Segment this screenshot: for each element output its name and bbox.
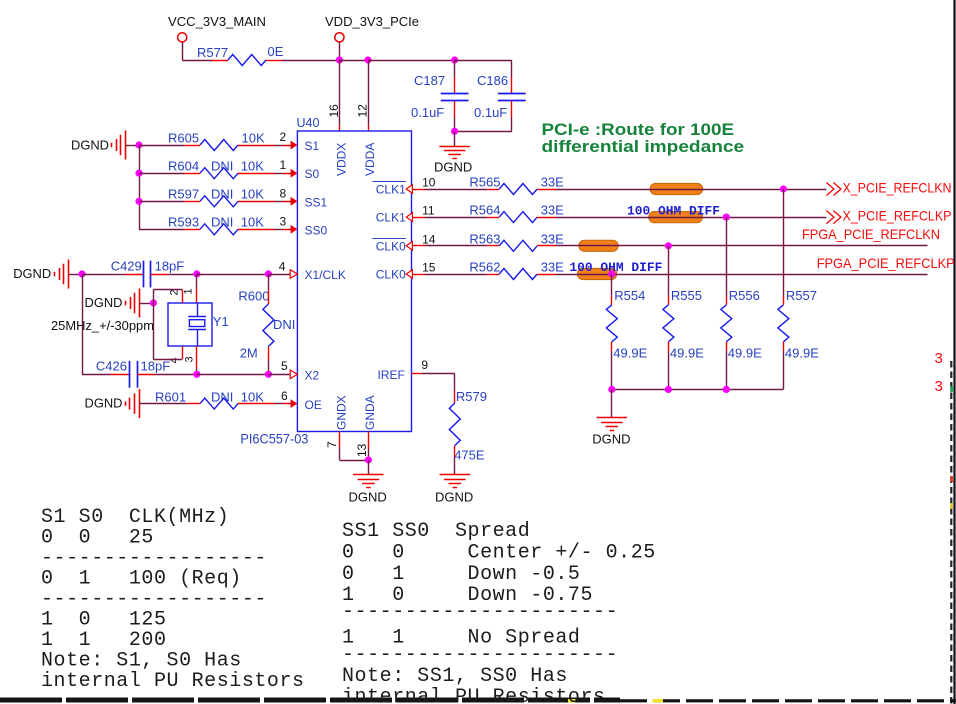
pin 14 clock output [406,232,435,250]
svg-text:R601: R601 [155,390,186,405]
svg-text:R554: R554 [614,288,645,303]
wire [139,145,141,229]
svg-text:DGND: DGND [85,295,123,310]
ground DGND (terminations) [592,389,630,446]
svg-text:R600: R600 [238,289,269,304]
svg-text:SS0: SS0 [305,223,328,237]
annotation 100 OHM DIFF [627,205,720,219]
resistor R577 0E [197,44,284,66]
wire [368,60,455,62]
svg-text:C186: C186 [477,73,508,88]
pin 1 arrow [280,158,298,177]
pin CLK1# name [373,182,407,197]
svg-text:5: 5 [281,359,288,373]
pin 7 GNDX wire [325,432,368,461]
pin S1 name [305,139,320,153]
svg-text:DGND: DGND [349,490,387,505]
pin CLK0 name [376,268,406,282]
orange highlight bar [578,268,617,279]
resistor R593 10K pin 3 [139,215,283,235]
svg-text:4: 4 [279,260,286,274]
ground DGND (pullup row) [71,131,139,160]
svg-text:DNI: DNI [211,159,233,174]
wire [197,374,269,376]
resistor R601 DNI 10K [155,390,283,410]
svg-text:16: 16 [327,104,341,118]
wire [455,131,512,133]
capacitor C187 0.1uF [411,60,469,131]
svg-text:2: 2 [280,130,287,144]
ground DGND (decoupling) [434,131,472,174]
wire [82,274,111,375]
junction [365,456,372,463]
pin 4 X1/CLK arrow [279,260,298,279]
svg-text:GNDX: GNDX [334,395,348,430]
crystal pin 3 lead [183,346,196,369]
junction [780,185,787,192]
svg-text:CLK1: CLK1 [376,183,406,197]
svg-text:VDDX: VDDX [334,143,348,176]
ground DGND (IREF) [435,475,473,505]
svg-text:CLK0: CLK0 [376,239,406,253]
svg-text:475E: 475E [454,448,485,463]
svg-text:R555: R555 [671,288,702,303]
svg-text:C429: C429 [111,259,142,274]
svg-text:FPGA_PCIE_REFCLKP: FPGA_PCIE_REFCLKP [817,255,955,271]
net label FPGA_PCIE_REFCLKN [802,226,940,242]
svg-text:SS1 SS0 Spread: SS1 SS0 Spread [342,520,530,543]
pin OE name [305,398,322,412]
table: SS1/SS0 spread spectrum select [342,520,656,704]
svg-text:CLK1: CLK1 [376,211,406,225]
svg-text:U40: U40 [297,116,320,130]
svg-text:FPGA_PCIE_REFCLKN: FPGA_PCIE_REFCLKN [802,226,940,242]
svg-text:DNI: DNI [211,390,233,405]
wire [155,374,197,376]
wire to crystal pin 4 [153,303,182,360]
resistor R564 33E [469,203,564,223]
ground DGND (GNDA) [349,460,387,505]
svg-text:0 1 Down -0.5: 0 1 Down -0.5 [342,563,581,586]
svg-text:OE: OE [305,398,322,412]
wire [182,42,212,61]
svg-text:10K: 10K [242,130,265,145]
svg-text:3: 3 [935,350,943,367]
svg-text:R564: R564 [469,203,500,218]
wire [339,60,368,62]
svg-text:13: 13 [355,443,369,457]
wire to crystal pin 2 [153,289,182,303]
junction [451,56,458,63]
crystal pin 1 label [182,288,194,294]
table: S1/S0 clock frequency select [41,506,305,693]
resistor R597 10K pin 8 [139,187,283,207]
resistor R556 49.9E termination [721,217,762,389]
svg-text:15: 15 [422,261,436,275]
svg-text:33E: 33E [541,260,564,275]
svg-text:3: 3 [183,356,195,362]
svg-text:VCC_3V3_MAIN: VCC_3V3_MAIN [168,14,266,29]
svg-text:VDDA: VDDA [363,143,377,176]
pin 8 arrow [280,186,298,205]
wire [282,60,339,62]
resistor R565 33E [469,175,564,195]
net label fragment 3 [935,350,943,367]
svg-text:100 OHM DIFF: 100 OHM DIFF [569,261,662,275]
crystal pin 4 lead [168,346,182,364]
svg-text:internal PU Resistors: internal PU Resistors [41,670,305,693]
svg-text:8: 8 [280,186,287,200]
svg-text:R605: R605 [168,130,199,145]
svg-text:12: 12 [356,104,370,118]
svg-text:0.1uF: 0.1uF [474,105,507,120]
crystal Y1 25MHz [168,303,229,346]
svg-text:49.9E: 49.9E [785,346,819,361]
net label FPGA_PCIE_REFCLKP [817,255,955,271]
junction [608,270,615,277]
svg-text:10K: 10K [241,390,264,405]
wire [82,274,111,276]
pin 16 VDDX wire [327,60,341,131]
pin X2 name [305,368,320,382]
capacitor C426 18pF [96,359,170,388]
svg-text:R563: R563 [469,231,500,246]
pin GNDA name [363,395,377,430]
wire [455,60,512,62]
net port X_PCIE_REFCLKP [826,208,951,224]
pin 5 X2 arrow [281,359,297,379]
resistor R605 10K pin 2 [139,130,283,150]
svg-text:internal PU Resistors: internal PU Resistors [342,686,606,704]
svg-text:49.9E: 49.9E [613,346,647,361]
wire [556,189,826,191]
wire [556,245,928,247]
svg-text:0E: 0E [268,44,284,59]
svg-text:C187: C187 [414,73,445,88]
junction [608,386,615,393]
svg-text:1: 1 [280,158,287,172]
resistor R604 10K pin 1 [139,159,283,179]
junction [135,198,142,205]
svg-text:DNI: DNI [211,187,233,202]
junction [193,371,200,378]
svg-text:DGND: DGND [71,138,109,153]
svg-text:25MHz_+/-30ppm: 25MHz_+/-30ppm [51,318,154,333]
svg-text:7: 7 [325,441,339,448]
wire [425,217,487,219]
wire [556,217,826,219]
svg-text:0.1uF: 0.1uF [411,105,444,120]
svg-text:9: 9 [421,358,428,372]
svg-text:X_PCIE_REFCLKN: X_PCIE_REFCLKN [843,180,952,196]
svg-text:3: 3 [935,378,943,395]
ground DGND (crystal row) [13,260,82,289]
svg-text:10: 10 [422,176,436,190]
resistor R557 49.9E termination [778,189,819,389]
svg-text:DNI: DNI [211,215,233,230]
svg-text:49.9E: 49.9E [670,346,704,361]
wire [556,274,928,276]
junction [665,242,672,249]
wire [268,274,290,276]
pin SS1 name [305,195,328,209]
wire [196,274,198,303]
svg-text:DGND: DGND [13,266,51,281]
svg-text:6: 6 [281,389,288,403]
pin 11 clock output [406,204,435,222]
svg-text:PI6C557-03: PI6C557-03 [240,431,308,447]
pin IREF name [377,368,404,382]
pin GNDX name [334,395,348,430]
wire [197,274,269,276]
junction [364,56,371,63]
junction [451,128,458,135]
svg-text:R577: R577 [197,45,228,60]
svg-text:49.9E: 49.9E [728,346,762,361]
junction [723,214,730,221]
svg-text:10K: 10K [241,215,264,230]
pin 13 GNDA wire [355,432,369,461]
pin SS0 name [305,223,328,237]
svg-text:X2: X2 [305,368,320,382]
svg-text:S0: S0 [305,167,320,181]
svg-text:3: 3 [280,214,287,228]
svg-text:CLK0: CLK0 [376,268,406,282]
pin X1/CLK name [305,268,346,282]
junction [665,386,672,393]
ground DGND (OE row) [85,389,187,418]
net port X_PCIE_REFCLKN [826,180,951,196]
svg-text:Note: SS1, SS0 Has: Note: SS1, SS0 Has [342,665,568,688]
svg-text:18pF: 18pF [141,359,171,374]
svg-text:X1/CLK: X1/CLK [305,268,346,282]
svg-text:33E: 33E [541,175,564,190]
ground DGND (crystal gnd) [85,289,154,318]
svg-text:S1: S1 [305,139,320,153]
junction node [135,141,142,148]
pin 2 arrow [280,130,298,149]
svg-text:DGND: DGND [85,396,123,411]
svg-text:R593: R593 [168,215,199,230]
pin 10 clock output [406,176,435,194]
svg-text:DGND: DGND [434,160,472,175]
svg-text:DGND: DGND [592,432,630,447]
resistor R555 49.9E termination [663,246,704,390]
wire [196,369,198,375]
svg-text:SS1: SS1 [305,195,328,209]
svg-text:GNDA: GNDA [363,395,377,430]
svg-text:1: 1 [182,288,194,294]
orange highlight bar [579,240,618,251]
svg-text:11: 11 [422,204,435,218]
junction [135,170,142,177]
svg-text:differential impedance: differential impedance [542,137,745,156]
crystal pin 2 lead [168,289,182,303]
resistor R562 33E [469,260,564,280]
svg-text:----------------------: ---------------------- [342,643,618,666]
svg-text:Y1: Y1 [213,314,229,329]
annotation 25MHz tolerance [51,318,154,333]
pin CLK0# name [373,239,407,254]
capacitor C186 0.1uF [474,60,526,131]
svg-text:IREF: IREF [377,368,404,382]
junction [723,386,730,393]
pin 6 OE arrow [281,389,297,408]
svg-text:18pF: 18pF [155,259,185,274]
pin 12 VDDA wire [356,60,370,131]
pin CLK1 name [376,211,406,225]
resistor R600 DNI 2M [238,274,295,374]
annotation 100 OHM DIFF [569,261,662,275]
pin VDDX name [334,143,348,176]
junction [265,371,272,378]
pin 3 arrow [280,214,298,233]
svg-text:10K: 10K [241,159,264,174]
wire [168,274,196,276]
wire (termination common rail) [612,389,784,391]
svg-text:R565: R565 [469,175,500,190]
svg-text:VDD_3V3_PCIe: VDD_3V3_PCIe [325,14,419,29]
svg-text:33E: 33E [541,231,564,246]
resistor R563 33E [469,231,564,251]
svg-text:2M: 2M [240,346,258,361]
svg-text:R556: R556 [729,288,760,303]
junction node [78,270,85,277]
pin S0 name [305,167,320,181]
svg-text:2: 2 [168,289,180,295]
net label fragment 3 [935,378,943,395]
wire [425,274,487,276]
pin 15 clock output [406,261,435,279]
svg-text:R604: R604 [168,159,199,174]
power net VDD_3V3_PCIe [325,14,419,60]
svg-text:DGND: DGND [435,490,473,505]
svg-text:33E: 33E [541,203,564,218]
svg-text:0 0 Center +/- 0.25: 0 0 Center +/- 0.25 [342,541,656,564]
capacitor C429 18pF [111,259,185,288]
junction [193,270,200,277]
pin 9 IREF wire [412,358,455,391]
resistor R554 49.9E termination [606,274,647,389]
svg-text:R579: R579 [456,389,487,404]
orange highlight bar [650,183,703,194]
svg-text:R557: R557 [786,288,817,303]
junction [336,56,343,63]
svg-text:10K: 10K [241,187,264,202]
svg-text:C426: C426 [96,359,127,374]
resistor R579 475E [449,389,487,475]
svg-text:14: 14 [422,232,436,246]
junction node [150,299,157,306]
wire [425,245,487,247]
svg-text:R562: R562 [469,260,500,275]
wire [425,189,487,191]
op-amp U40 PI6C557-03 (clock generator IC body) [240,116,411,447]
wire [268,374,290,376]
svg-text:R597: R597 [168,187,199,202]
junction [265,270,272,277]
svg-text:DNI: DNI [273,317,295,332]
power net VCC_3V3_MAIN [168,14,266,42]
pin VDDA name [363,143,377,176]
orange highlight bar [649,212,703,223]
svg-text:X_PCIE_REFCLKP: X_PCIE_REFCLKP [843,208,952,224]
svg-text:----------------------: ---------------------- [342,600,618,623]
annotation: PCI-e route note [542,120,745,156]
svg-text:100 OHM DIFF: 100 OHM DIFF [627,205,720,219]
